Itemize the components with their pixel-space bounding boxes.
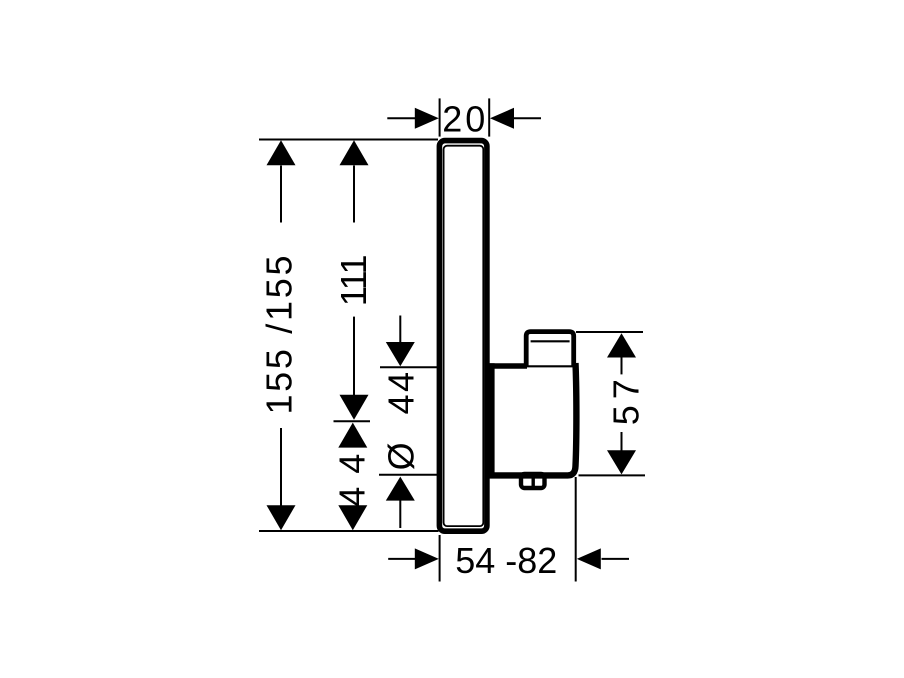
- svg-text:Ø: Ø: [380, 442, 421, 470]
- svg-text:57: 57: [605, 373, 646, 425]
- svg-text:54 -82: 54 -82: [455, 540, 557, 581]
- svg-text:44: 44: [380, 369, 421, 414]
- svg-text:20: 20: [442, 99, 488, 140]
- svg-text:111: 111: [333, 256, 374, 307]
- svg-text:44: 44: [332, 441, 373, 507]
- svg-text:155 /155: 155 /155: [258, 253, 299, 415]
